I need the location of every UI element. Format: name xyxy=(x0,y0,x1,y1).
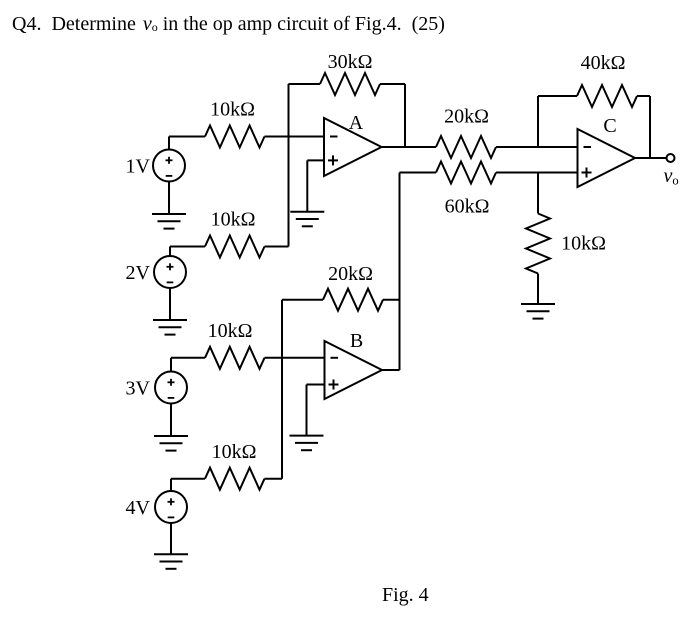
svg-text:60kΩ: 60kΩ xyxy=(445,196,490,218)
svg-text:10kΩ: 10kΩ xyxy=(208,320,253,342)
svg-text:C: C xyxy=(603,115,616,137)
svg-text:B: B xyxy=(350,330,363,352)
svg-text:30kΩ: 30kΩ xyxy=(328,51,373,73)
svg-text:Q4. Determine vo in the op am: Q4. Determine vo in the op amp circuit o… xyxy=(12,13,445,35)
svg-text:10kΩ: 10kΩ xyxy=(211,209,256,231)
svg-text:3V: 3V xyxy=(126,378,151,400)
svg-text:A: A xyxy=(349,112,364,134)
svg-text:40kΩ: 40kΩ xyxy=(581,52,626,74)
svg-text:4V: 4V xyxy=(126,497,151,519)
svg-text:20kΩ: 20kΩ xyxy=(328,263,373,285)
svg-text:Fig. 4: Fig. 4 xyxy=(382,584,429,606)
svg-text:10kΩ: 10kΩ xyxy=(212,441,257,463)
svg-text:20kΩ: 20kΩ xyxy=(444,106,489,128)
svg-text:1V: 1V xyxy=(126,156,151,178)
svg-text:10kΩ: 10kΩ xyxy=(561,233,606,255)
svg-text:2V: 2V xyxy=(126,262,151,284)
svg-text:10kΩ: 10kΩ xyxy=(210,99,255,121)
